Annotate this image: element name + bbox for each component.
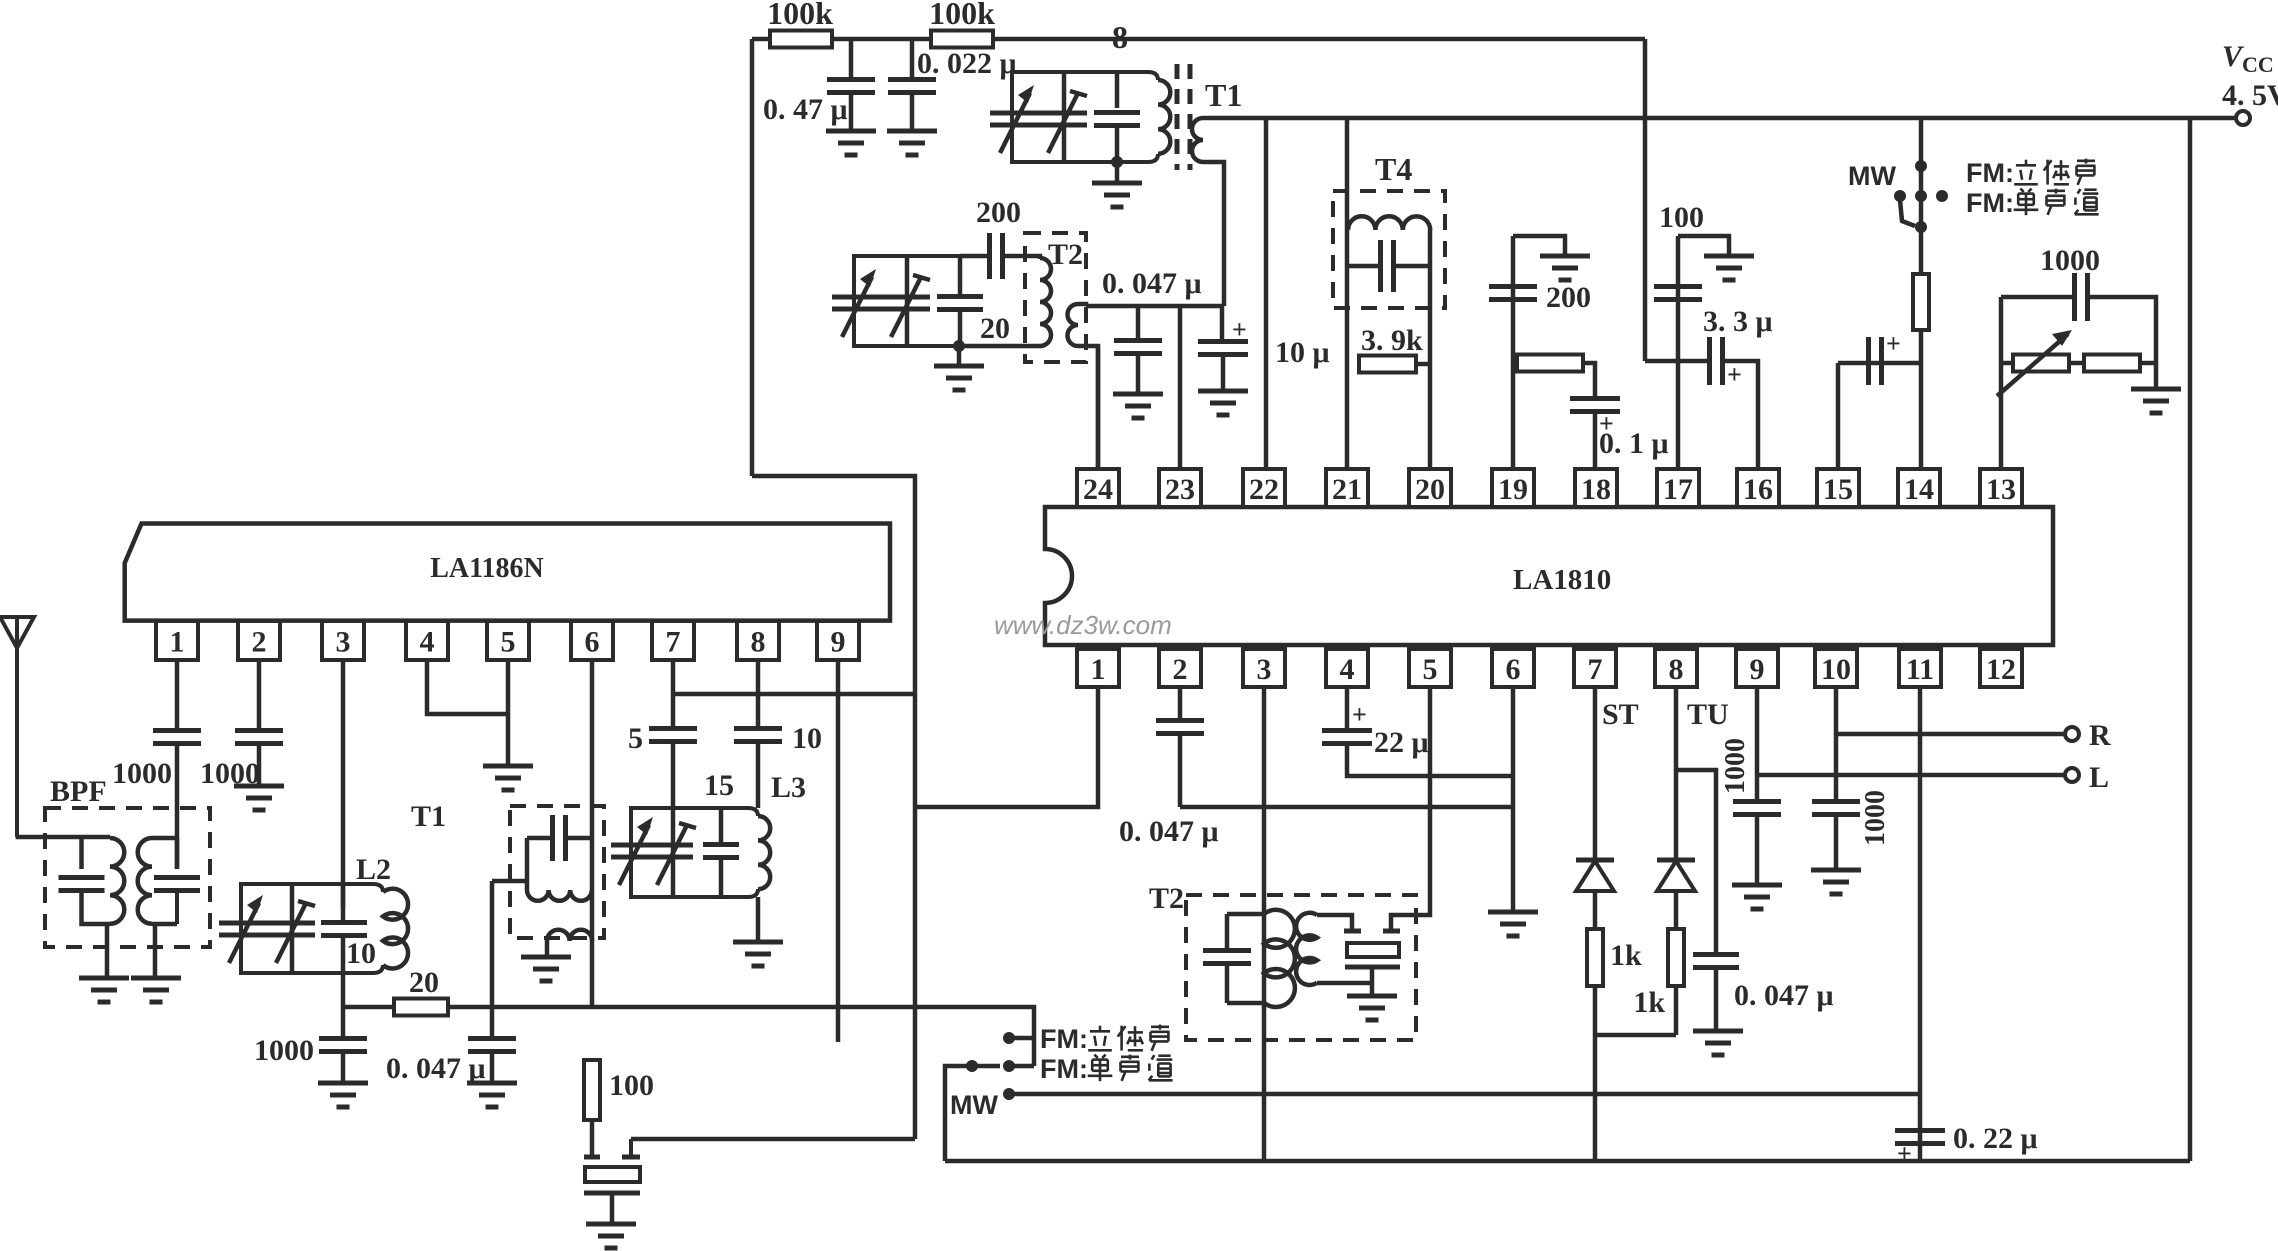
svg-text:1: 1 [1091, 653, 1106, 686]
wire pin2 cap to line [1178, 734, 1183, 807]
crystal bottom plate [584, 1191, 640, 1196]
wire resistor to corner [2140, 361, 2156, 366]
pin 23 LA1810 [1159, 469, 1201, 507]
wire pin24 riser segment [1096, 346, 1101, 469]
pin 5 bottom LA1810 [1409, 649, 1451, 687]
pin 24 LA1810 [1077, 469, 1119, 507]
ground L3 [733, 940, 783, 945]
cjk stereo bottom [1099, 1026, 1102, 1031]
wire osc tank cap top leg [958, 256, 963, 296]
wire resistor to 0.1u [1583, 363, 1595, 397]
wire ST-TU link [1595, 1033, 1676, 1038]
T1L left leg [525, 838, 530, 890]
svg-text:20: 20 [980, 312, 1010, 345]
svg-text:5: 5 [501, 626, 516, 659]
wire right rail vertical [2188, 118, 2193, 1161]
capacitor BPF tank2 [154, 875, 200, 880]
svg-text:L: L [2089, 761, 2109, 794]
wire crystal to ground [610, 1193, 615, 1224]
L2 tank box [241, 884, 383, 973]
svg-text:FM:: FM: [1966, 158, 2014, 188]
BPF coil 2 [138, 838, 152, 924]
pin 3 LA1186N [322, 621, 364, 660]
crystal top contact left [584, 1155, 600, 1160]
wire 0.1u to pin18 [1593, 412, 1598, 469]
svg-text:24: 24 [1083, 473, 1113, 506]
pin 18 LA1810 [1575, 469, 1617, 507]
svg-text:6: 6 [585, 626, 600, 659]
IC LA1810 body [1045, 507, 2053, 645]
wire pin3 through L2 [341, 884, 346, 922]
pin 7 bottom LA1810 [1574, 649, 1616, 687]
wire L3 to ground [756, 897, 761, 942]
resistor 100k R1 [770, 31, 832, 48]
T2B primary coil [1264, 910, 1295, 1007]
ground pin5 1186 [483, 764, 533, 769]
wire 1k TU down [1674, 986, 1679, 1035]
ground of C1 [826, 129, 876, 134]
capacitor 5 [649, 726, 697, 731]
junction dot FM tank [1111, 156, 1123, 168]
svg-text:1k: 1k [1610, 939, 1642, 972]
wire cap10 to L3 [756, 742, 761, 808]
BPF tank1 ground leg [105, 924, 110, 978]
wire 0.047 leg [490, 1007, 495, 1037]
BPF coil 1 [110, 838, 124, 924]
wire pin19 riser [1511, 236, 1516, 469]
pin 3 bottom LA1810 [1243, 649, 1285, 687]
svg-text:MW: MW [950, 1090, 998, 1120]
T4 coil [1348, 216, 1430, 230]
dot FM mono contact [1003, 1060, 1015, 1072]
svg-text:100: 100 [609, 1069, 654, 1102]
pin 1 LA1186N [156, 621, 198, 660]
svg-text:3. 3 μ: 3. 3 μ [1703, 305, 1773, 338]
terminal L [2065, 768, 2079, 782]
capacitor 1000 pin2 [235, 728, 283, 733]
wire diode ST to res [1593, 891, 1598, 929]
capacitor 20 in osc tank [937, 294, 983, 299]
wire pin13 riser [1999, 297, 2004, 469]
wire pin7 down [1593, 687, 1598, 858]
svg-text:+: + [1727, 360, 1742, 389]
IC LA1186N body [125, 524, 890, 621]
resistor 3.9k [1359, 356, 1416, 373]
dot FM stereo contact [1003, 1032, 1015, 1044]
T2 primary coil [1040, 258, 1051, 346]
BPF tank2 cap low leg [175, 891, 179, 924]
wire cap C2 leg [910, 39, 915, 78]
wire 10u to ground [1221, 355, 1226, 391]
switch dot lower [1915, 221, 1927, 233]
BPF dashed box [45, 808, 210, 947]
svg-text:10: 10 [792, 722, 822, 755]
T2B secondary bottom lead [1317, 981, 1372, 986]
switch lever top [1900, 200, 1915, 226]
variable capacitor CV8 L3 [653, 843, 693, 848]
pin 9 bottom LA1810 [1736, 649, 1778, 687]
pin 5 LA1186N [487, 621, 529, 660]
wire antenna to BPF [16, 835, 110, 840]
capacitor 22u electrolytic [1322, 728, 1372, 733]
wire pin1 1810 feed [915, 687, 1098, 807]
wire pole to bottom rail [945, 1066, 972, 1161]
BPF tank1 cap bottom [82, 891, 111, 924]
cjk stereo top [2025, 160, 2028, 165]
pin 9 LA1186N [817, 621, 859, 660]
svg-text:1000: 1000 [2040, 244, 2100, 277]
T1L secondary coil [547, 930, 592, 941]
svg-text:LA1186N: LA1186N [430, 553, 544, 584]
wire pin8 down [1674, 687, 1679, 858]
T2B secondary top lead [1317, 915, 1352, 929]
svg-text:20: 20 [409, 966, 439, 999]
wire osc feed vertical [913, 807, 918, 1139]
wire pin6 down through T1 [590, 660, 595, 1007]
wire pin6 down [1511, 687, 1516, 912]
MW osc tank box [854, 256, 960, 346]
capacitor in T4 [1378, 240, 1383, 292]
wire pin3 long vertical [1262, 687, 1267, 1161]
svg-text:23: 23 [1165, 473, 1195, 506]
svg-text:6: 6 [1506, 653, 1521, 686]
capacitor 1000 pin9 [1733, 799, 1781, 804]
svg-text:LA1810: LA1810 [1513, 564, 1611, 596]
svg-text:5: 5 [1423, 653, 1438, 686]
T2 secondary coil [1068, 304, 1079, 346]
junction dot osc tank [953, 340, 965, 352]
capacitor 1000 at L2 node [319, 1036, 367, 1041]
wire pin7 down [671, 660, 676, 729]
L2 coil bumps [383, 889, 408, 969]
capacitor 0.47u C1 [827, 77, 875, 82]
svg-text:10: 10 [346, 937, 376, 970]
resistor 1k ST [1587, 929, 1603, 986]
svg-text:100k: 100k [929, 0, 995, 31]
ceramic filter body [1347, 943, 1399, 957]
wire crystal link [631, 1137, 915, 1142]
svg-text:0. 047 μ: 0. 047 μ [1119, 815, 1219, 848]
T1 core dashed line b [1188, 64, 1193, 170]
wire 17 node [1645, 359, 1710, 364]
T4 cap right lead [1395, 264, 1430, 269]
stub stereo contact [1010, 1036, 1034, 1041]
wire link pin7 node [673, 692, 915, 697]
svg-text:0. 22 μ: 0. 22 μ [1953, 1122, 2038, 1155]
capacitor 0.022u C2 [888, 77, 936, 82]
svg-text:20: 20 [1415, 473, 1445, 506]
capacitor 0.047u IF [1114, 338, 1162, 343]
ground crystal [586, 1222, 636, 1227]
wire 1000 pin10 to gnd [1834, 815, 1839, 870]
svg-text:8: 8 [1112, 19, 1128, 55]
wire osc tank cap bottom leg [958, 310, 963, 346]
L3 fixed cap bottom leg [719, 858, 724, 897]
variable capacitor CV6 L2 [269, 921, 315, 926]
wire bottom rail [945, 1159, 2190, 1164]
pin 6 bottom LA1810 [1492, 649, 1534, 687]
capacitor 10 [734, 726, 782, 731]
wire T2 primary bottom [960, 344, 1040, 346]
switch dot mid right [1936, 190, 1948, 202]
svg-text:FM:: FM: [1040, 1024, 1088, 1054]
capacitor 3.3u electrolytic [1707, 337, 1712, 385]
T2B left leg upper [1225, 914, 1230, 948]
pin 11 bottom LA1810 [1899, 649, 1941, 687]
pin 17 LA1810 [1657, 469, 1699, 507]
capacitor 0.047u pin2 [1156, 718, 1204, 723]
wire cap C1 leg [849, 39, 854, 78]
wire 200 cap to T2 primary [1003, 256, 1040, 259]
svg-text:T4: T4 [1375, 151, 1412, 187]
wire T2 secondary top lead [1078, 304, 1086, 306]
pin 10 bottom LA1810 [1815, 649, 1857, 687]
capacitor 200 pin19 [1489, 284, 1537, 289]
wire top rail from left corner [752, 37, 1645, 42]
wire 1000 cap leg L2 [341, 1007, 346, 1037]
svg-text:+: + [1886, 329, 1901, 358]
svg-text:0. 047 μ: 0. 047 μ [386, 1052, 486, 1085]
wire 3.9k to pin20 leg [1416, 362, 1430, 367]
svg-text:1: 1 [170, 626, 185, 659]
svg-text:13: 13 [1986, 473, 2016, 506]
ground pin2 1186 [234, 784, 284, 789]
wire diode TU to res [1674, 891, 1679, 929]
pin 20 LA1810 [1409, 469, 1451, 507]
resistor pin19 [1517, 355, 1583, 372]
capacitor 1000 pin10 [1812, 799, 1860, 804]
ground of osc tank [934, 364, 984, 369]
svg-text:FM:: FM: [1966, 188, 2014, 218]
wire pin15 riser [1836, 363, 1841, 469]
wire pin2 cap leg [1178, 687, 1183, 719]
pin 2 LA1186N [238, 621, 280, 660]
pin 4 bottom LA1810 [1326, 649, 1368, 687]
variable capacitor CV5 L2 [219, 921, 271, 926]
wire osc node line left [343, 1005, 394, 1010]
ground pin13 net [2131, 387, 2181, 392]
capacitor 10u electrolytic [1198, 339, 1248, 344]
resistor pin13 net [2084, 355, 2140, 372]
capacitor in T2 bottom [1203, 948, 1251, 953]
svg-text:4: 4 [420, 626, 435, 659]
wire 1k ST down [1593, 986, 1598, 1161]
T4 dashed box [1333, 191, 1445, 308]
ground 0.047u TU [1693, 1029, 1743, 1034]
T2 bottom dashed box [1186, 895, 1416, 1040]
pin 13 LA1810 [1980, 469, 2022, 507]
pin 19 LA1810 [1492, 469, 1534, 507]
T2B secondary coil [1296, 913, 1317, 985]
ground of 0.047u IF [1113, 392, 1163, 397]
wire T1 secondary top to Vcc rail [1203, 116, 1266, 121]
dot MW contact [1003, 1088, 1015, 1100]
wire 3.3u to pin16 [1723, 361, 1758, 469]
T1 core dashed line a [1175, 64, 1180, 170]
wire pin9 down [836, 660, 841, 1042]
svg-text:L3: L3 [771, 771, 806, 804]
svg-text:200: 200 [976, 196, 1021, 229]
capacitor 0.047u osc [468, 1036, 516, 1041]
wire R line [1836, 732, 2065, 737]
wire pin2 cap to ground [257, 744, 262, 786]
ground 0.047u osc [467, 1081, 517, 1086]
pin 22 LA1810 [1243, 469, 1285, 507]
resistor 20 [394, 999, 448, 1016]
ground 1000 L2node [318, 1081, 368, 1086]
wire long vertical from top rail [1643, 39, 1648, 361]
svg-text:11: 11 [1906, 653, 1934, 686]
wire pin3 1186 down [341, 660, 346, 908]
BPF tank2 bottom wire [152, 922, 177, 927]
svg-text:+: + [1352, 700, 1367, 729]
svg-text:ST: ST [1602, 698, 1639, 731]
wire 0.047 TU to ground [1714, 968, 1719, 1031]
wire L2 cap to node [341, 936, 346, 1007]
svg-text:5: 5 [628, 722, 643, 755]
capacitor BPF tank1 [59, 875, 105, 880]
wire pot top branch [2001, 295, 2074, 300]
svg-text:+: + [1897, 1139, 1912, 1168]
wire pin1 cap to BPF [175, 744, 180, 869]
stub mono contact [1010, 1064, 1034, 1069]
T1L cap branch left [527, 836, 553, 841]
svg-text:22 μ: 22 μ [1374, 726, 1429, 759]
svg-text:T2: T2 [1149, 882, 1184, 915]
BPF tank2 cap legs [175, 838, 180, 869]
svg-text:200: 200 [1546, 281, 1591, 314]
wire MW line [1009, 1092, 1920, 1097]
svg-text:10: 10 [1821, 653, 1851, 686]
ground BPF tank1 [79, 976, 129, 981]
MW osc tank divider [905, 256, 910, 346]
filter top contact left [1344, 929, 1361, 934]
resistor 100k R2 [931, 31, 993, 48]
pin 14 LA1810 [1898, 469, 1940, 507]
wire pin17 riser [1676, 236, 1681, 469]
wire T1 secondary bottom lead [1203, 162, 1224, 306]
ground of 10u [1198, 389, 1248, 394]
pin 16 LA1810 [1737, 469, 1779, 507]
wire jog to ground pin19 [1513, 236, 1565, 256]
resistor pin14 switch [1913, 274, 1929, 330]
cjk mono top [2020, 189, 2023, 192]
switch lever bottom [972, 1064, 1000, 1069]
crystal top contact right [622, 1155, 640, 1160]
pin 2 bottom LA1810 [1159, 649, 1201, 687]
svg-text:4: 4 [1340, 653, 1355, 686]
pin 6 LA1186N [571, 621, 613, 660]
svg-text:10 μ: 10 μ [1275, 336, 1330, 369]
svg-text:L2: L2 [356, 853, 391, 886]
filter bottom plate [1345, 965, 1400, 970]
wire pin10 down [1834, 687, 1839, 800]
filter bottom lead [1370, 967, 1375, 996]
wire L line [1757, 773, 2065, 778]
wire FM tank to ground [1115, 162, 1120, 183]
wire pin4 jog [427, 660, 508, 714]
svg-text:2: 2 [252, 626, 267, 659]
pin 21 LA1810 [1326, 469, 1368, 507]
wire 0.047u leg [1136, 306, 1141, 339]
svg-text:MW: MW [1848, 161, 1896, 191]
wire T1L lead down to node [490, 881, 495, 1007]
wire fixed cap 8 bottom leg [1115, 126, 1120, 162]
wire jog to ground pin17 [1678, 236, 1729, 256]
svg-text:0. 047 μ: 0. 047 μ [1734, 979, 1834, 1012]
svg-text:1k: 1k [1633, 986, 1665, 1019]
svg-text:7: 7 [1588, 653, 1603, 686]
svg-text:2: 2 [1173, 653, 1188, 686]
BPF tank2 top wire [152, 836, 177, 841]
wire pin9 down [1755, 687, 1760, 800]
svg-text:18: 18 [1581, 473, 1611, 506]
wire T2 secondary bottom lead [1078, 346, 1098, 469]
wire osc node line [448, 1005, 915, 1010]
ground pin10 cap [1811, 868, 1861, 873]
svg-text:T1: T1 [1205, 77, 1242, 113]
variable capacitor CV4 in osc tank [884, 295, 930, 300]
svg-text:7: 7 [666, 626, 681, 659]
wire C1 to ground [849, 93, 854, 131]
svg-text:BPF: BPF [50, 775, 107, 808]
hanging ground pin17 [1704, 254, 1754, 259]
wire pin1 1186 down [175, 660, 180, 729]
wire left vertical drop [750, 39, 755, 476]
resistor 1k TU [1668, 929, 1684, 986]
resistor 100 vertical [584, 1060, 600, 1120]
wire node to stereo contact [915, 1007, 1034, 1066]
svg-text:1000: 1000 [254, 1034, 314, 1067]
BPF tank2 ground leg [153, 924, 158, 978]
wire pin22 riser [1264, 118, 1269, 469]
capacitor 8 in FM tank [1094, 110, 1140, 115]
ground pin6 [1488, 910, 1538, 915]
svg-text:TU: TU [1687, 698, 1729, 731]
svg-text:12: 12 [1986, 653, 2016, 686]
svg-text:T1: T1 [411, 800, 446, 833]
FM tank divider [1062, 72, 1067, 162]
svg-text:1000: 1000 [1860, 790, 1891, 846]
capacitor 1000 pin1 [153, 728, 201, 733]
capacitor 0.1u electrolytic [1570, 396, 1620, 401]
cjk mono bottom [1094, 1055, 1097, 1058]
svg-text:8: 8 [1669, 653, 1684, 686]
wire corner to ground [2154, 363, 2159, 389]
pin 4 LA1186N [406, 621, 448, 660]
T2B left leg lower [1225, 965, 1230, 1003]
T1L cap branch right [566, 836, 592, 841]
BPF tank1 cap leg [79, 837, 84, 869]
svg-text:1000: 1000 [112, 757, 172, 790]
pin 8 LA1186N [737, 621, 779, 660]
ground pin9 cap [1732, 883, 1782, 888]
svg-text:0. 1 μ: 0. 1 μ [1599, 427, 1669, 460]
pin 15 LA1810 [1817, 469, 1859, 507]
wire pin23 riser [1178, 306, 1183, 469]
svg-text:14: 14 [1904, 473, 1934, 506]
svg-text:100: 100 [1659, 201, 1704, 234]
FM tank box [1012, 72, 1158, 162]
capacitor in L3 [703, 842, 739, 847]
svg-text:3. 9k: 3. 9k [1361, 324, 1423, 357]
wire 15-14 node [1838, 361, 1921, 366]
wire pin11 long [1918, 687, 1923, 1161]
capacitor in T1 left [550, 815, 555, 861]
L2 divider [290, 884, 295, 973]
svg-text:0. 022 μ: 0. 022 μ [917, 47, 1017, 80]
wire 22u to pin6 link [1347, 744, 1513, 776]
